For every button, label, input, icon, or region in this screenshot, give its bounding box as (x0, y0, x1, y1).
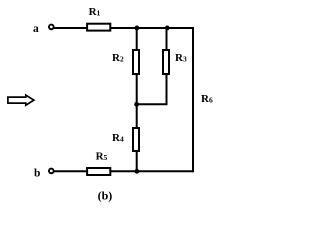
svg-text:R1: R1 (89, 6, 101, 18)
resistor R5 body (87, 168, 110, 175)
node junction dot top left (135, 26, 140, 31)
wire top horizontal a to right rail (54, 27, 193, 29)
svg-text:a: a (33, 23, 39, 35)
node junction dot bottom (135, 169, 140, 174)
terminal b circle (49, 169, 54, 174)
wire right rail R6 (192, 27, 194, 172)
svg-text:R3: R3 (175, 52, 187, 64)
resistor R2 body (133, 50, 139, 74)
svg-text:R4: R4 (112, 132, 124, 144)
resistor R4 body (133, 128, 139, 151)
svg-text:R5: R5 (96, 151, 108, 163)
wire R3 column (166, 28, 168, 104)
wire bottom horizontal b to right rail (54, 170, 193, 172)
wire R2 R4 column (136, 28, 138, 171)
svg-text:b: b (34, 167, 40, 179)
input block arrow (8, 95, 34, 105)
wire middle connector R2-R3 node (136, 103, 168, 105)
terminal a circle (49, 25, 54, 30)
svg-text:R2: R2 (112, 52, 124, 64)
node junction dot top right (165, 26, 170, 31)
resistor R3 body (163, 50, 169, 74)
resistor R1 body (87, 24, 110, 31)
svg-text:(b): (b) (98, 188, 113, 202)
svg-text:R6: R6 (201, 93, 213, 105)
node junction dot middle (134, 102, 139, 107)
